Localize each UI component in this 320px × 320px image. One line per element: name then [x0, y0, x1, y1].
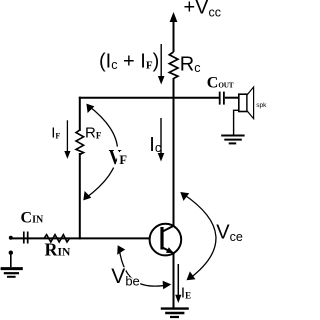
wire left feedback vertical (top segment) — [79, 97, 81, 131]
wire COUT to speaker — [225, 97, 239, 99]
ground stub node (input) — [9, 251, 13, 255]
input terminal node — [9, 236, 13, 240]
capacitor COUT — [220, 92, 224, 105]
resistor Rc — [169, 52, 178, 79]
ground (speaker) — [221, 136, 244, 144]
resistor RF — [76, 130, 84, 155]
speaker SPK — [239, 87, 254, 119]
svg-text:spk: spk — [256, 102, 267, 109]
transistor Q1 — [150, 224, 182, 256]
arc Vbe (base-emitter voltage) — [117, 245, 171, 289]
arc Vce (collector-emitter voltage) — [180, 192, 216, 280]
ground (input) — [1, 253, 23, 277]
current arrow IF — [64, 120, 70, 159]
power +Vcc supply arrow — [170, 12, 178, 52]
current arrow Ic — [158, 118, 165, 162]
arc VF (feedback voltage) — [83, 104, 117, 201]
wire top horizontal rail — [79, 97, 220, 99]
svg-text:F: F — [119, 153, 127, 167]
resistor RIN — [44, 235, 70, 242]
wire emitter vertical — [173, 253, 175, 308]
current arrow (Ic + IF) — [158, 44, 165, 85]
capacitor CIN — [24, 232, 28, 244]
current arrow IE — [175, 264, 181, 303]
wire speaker to ground — [234, 110, 239, 135]
wire collector vertical (Rc bottom to transistor) — [173, 78, 175, 226]
ground (emitter) — [161, 309, 189, 317]
wire left feedback vertical (bottom segment) — [79, 153, 81, 239]
wire base horizontal — [11, 237, 161, 239]
